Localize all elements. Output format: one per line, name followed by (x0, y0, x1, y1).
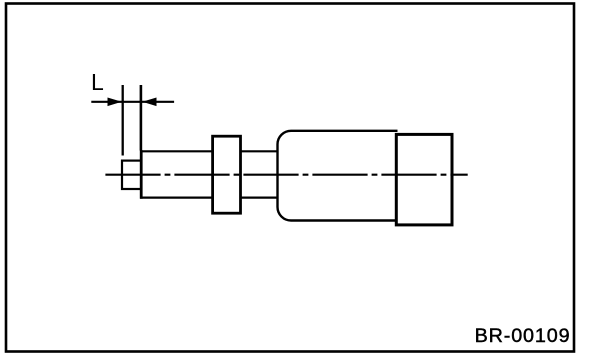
svg-text:BR-00109: BR-00109 (475, 325, 571, 347)
node end block (396, 134, 452, 225)
wire shaft left edge (140, 150, 143, 199)
svg-text:L: L (91, 69, 104, 95)
node bolt tip rectangle (122, 161, 141, 189)
wire shaft bottom line (140, 197, 279, 199)
wire extension line 2 (140, 85, 143, 151)
node arrowhead left (108, 98, 122, 107)
node rounded body (278, 131, 398, 221)
wire shaft top line (140, 150, 279, 152)
node arrowhead right (142, 98, 156, 107)
wire dimension line (91, 101, 174, 103)
wire extension line 1 (122, 85, 124, 156)
wire centerline dash-dot (105, 174, 467, 176)
node flange (213, 136, 241, 213)
